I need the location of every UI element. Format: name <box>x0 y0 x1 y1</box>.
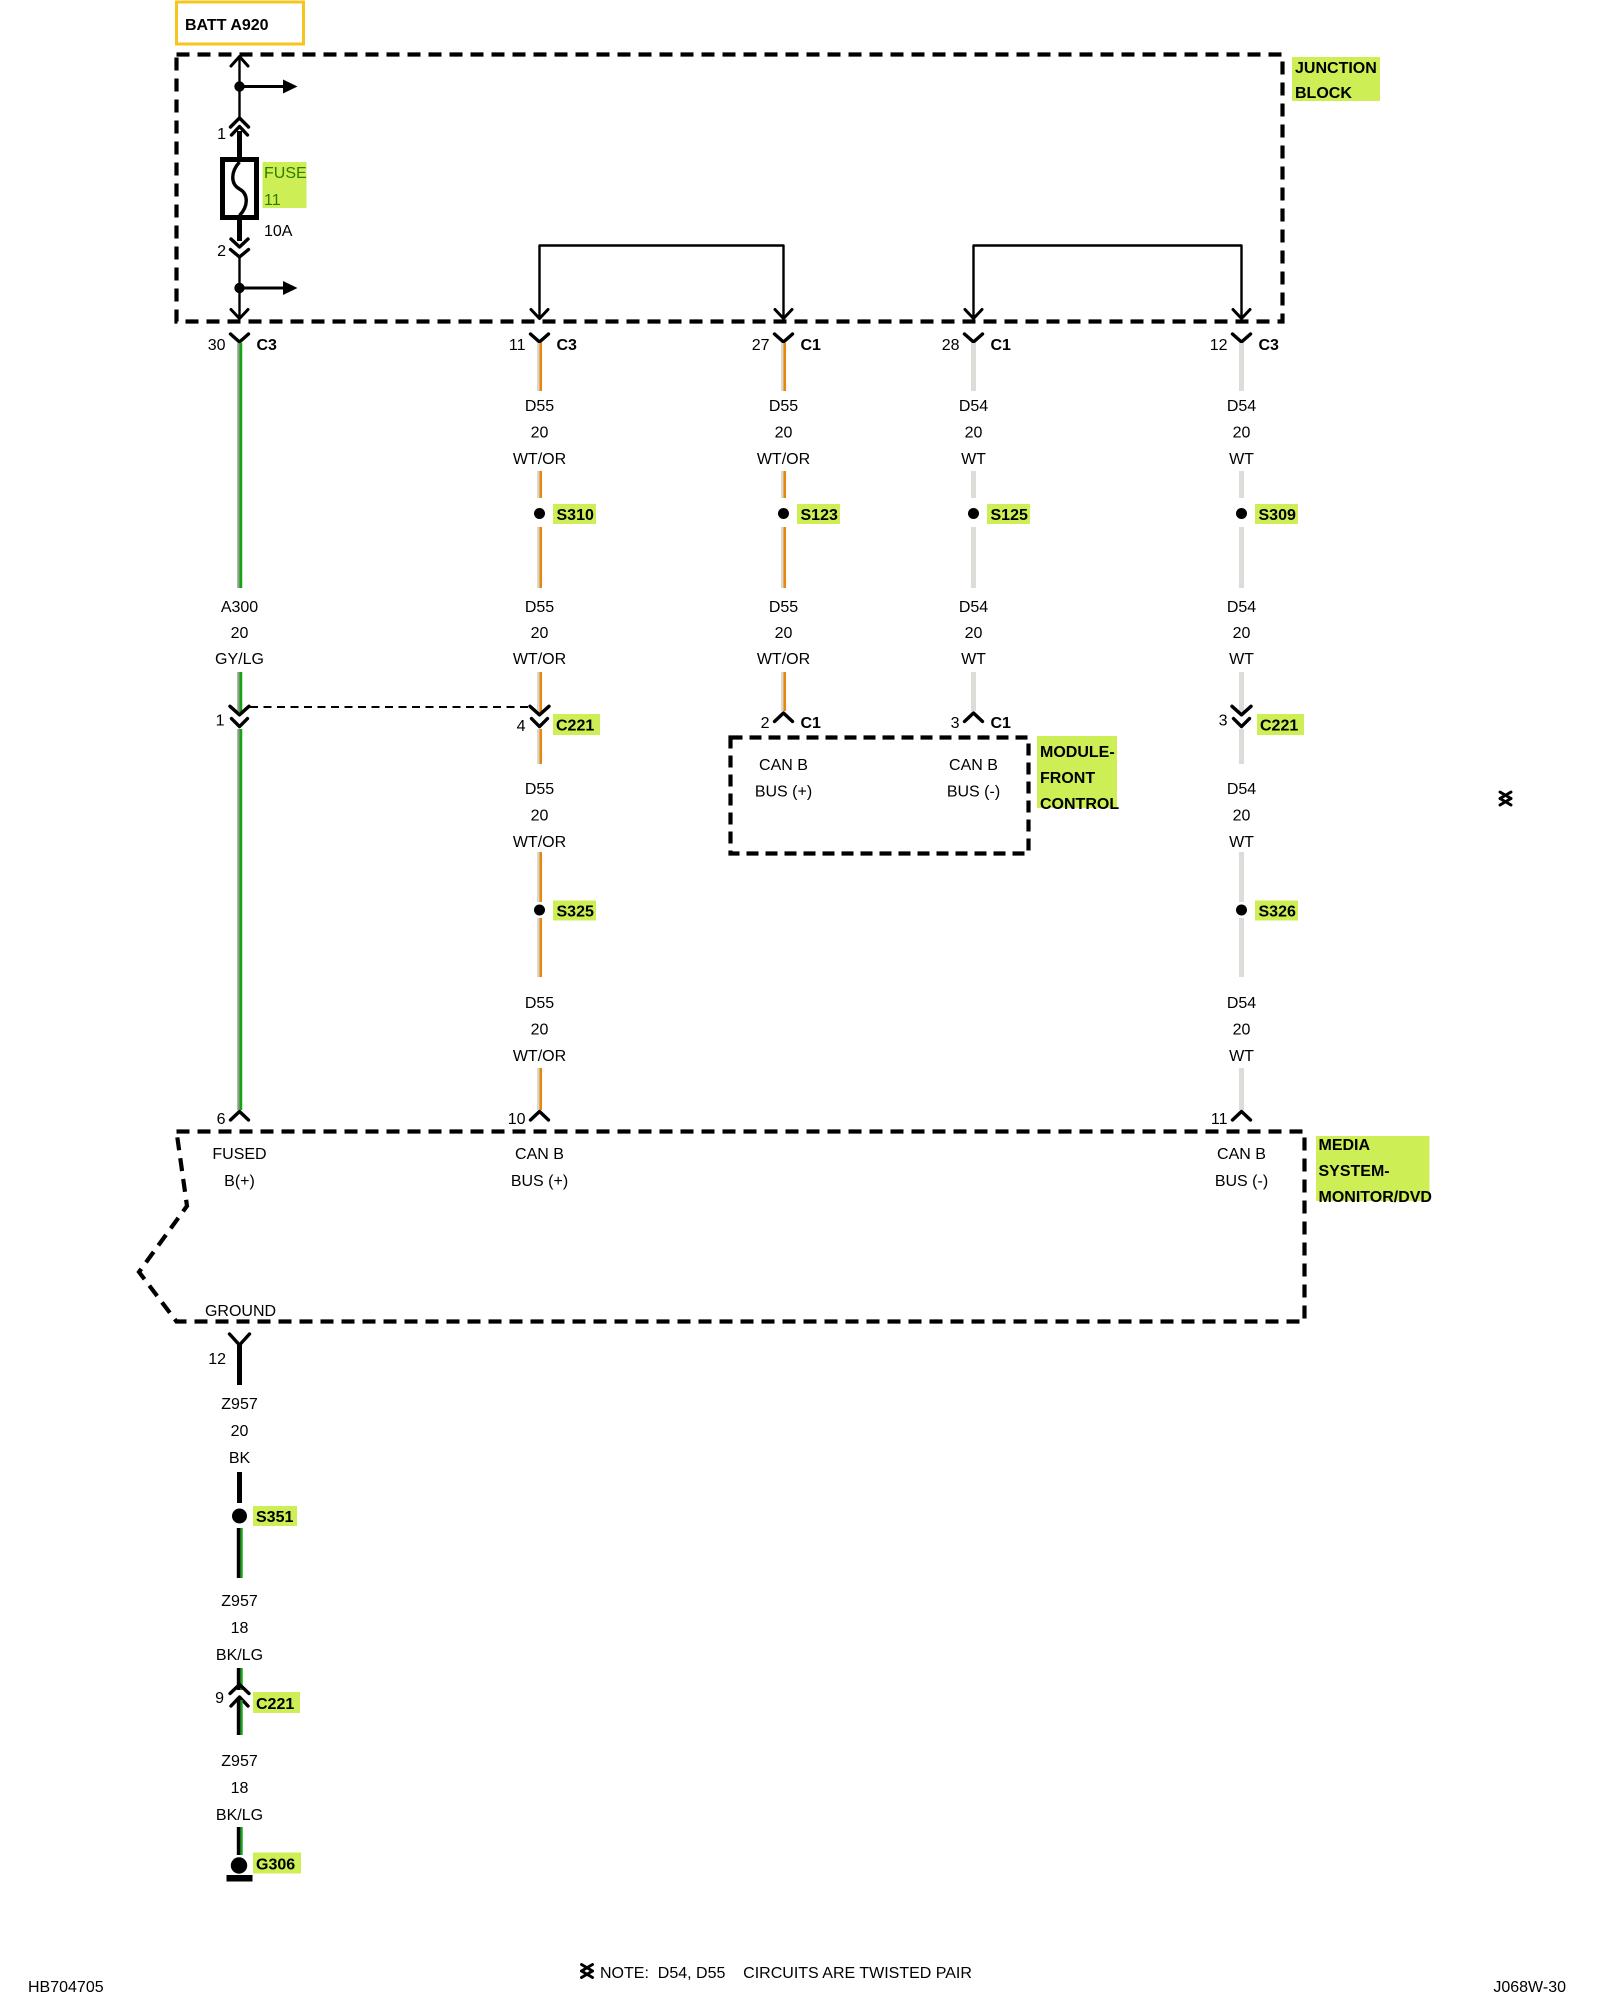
wire (col3 seg2) <box>781 471 783 498</box>
connector C1 pin 2 module front control <box>775 713 793 722</box>
connector C1 pin 28 (junction block) <box>965 334 983 342</box>
svg-text:C3: C3 <box>557 337 578 354</box>
svg-text:Z957: Z957 <box>221 1593 258 1610</box>
svg-text:WT/OR: WT/OR <box>513 1048 566 1065</box>
svg-text:BUS (-): BUS (-) <box>947 784 1000 801</box>
svg-text:D54: D54 <box>1227 599 1256 616</box>
svg-text:D55: D55 <box>525 398 554 415</box>
svg-text:20: 20 <box>231 625 249 642</box>
svg-text:BK/LG: BK/LG <box>216 1807 263 1824</box>
svg-text:WT/OR: WT/OR <box>757 451 810 468</box>
svg-text:WT: WT <box>1229 451 1254 468</box>
connector pin 10 media system <box>531 1112 549 1121</box>
splice S326 <box>1236 905 1247 916</box>
wire fuse body to pin 2 <box>237 217 242 241</box>
splice S310 <box>534 508 545 519</box>
svg-text:CAN B: CAN B <box>759 757 808 774</box>
svg-text:2: 2 <box>217 243 226 260</box>
wire A300 to connector 1 <box>237 672 239 712</box>
wire to C3 pin 30 exit <box>238 288 240 316</box>
splice S325 <box>534 905 545 916</box>
svg-text:BUS (+): BUS (+) <box>755 784 812 801</box>
connector pin 1 of fuse <box>231 118 249 127</box>
svg-text:A300: A300 <box>221 599 258 616</box>
branch arrow lower <box>240 287 284 290</box>
svg-text:18: 18 <box>231 1780 249 1797</box>
wire A300 20 GY/LG upper <box>237 343 239 588</box>
svg-text:S310: S310 <box>557 507 594 524</box>
svg-text:SYSTEM-: SYSTEM- <box>1319 1163 1390 1180</box>
svg-text:20: 20 <box>231 1423 249 1440</box>
svg-text:10A: 10A <box>264 223 293 240</box>
connector pin 12 media system (ground) <box>230 1334 250 1345</box>
svg-text:G306: G306 <box>256 1857 295 1874</box>
svg-text:S351: S351 <box>256 1509 293 1526</box>
svg-text:JUNCTION: JUNCTION <box>1295 60 1377 77</box>
wire (col3 seg3) <box>781 527 783 588</box>
svg-text:BUS (-): BUS (-) <box>1215 1173 1268 1190</box>
wire battery feed to fuse <box>238 57 240 87</box>
svg-text:S326: S326 <box>1259 904 1296 921</box>
svg-text:4: 4 <box>517 718 526 735</box>
svg-text:BLOCK: BLOCK <box>1295 85 1352 102</box>
svg-text:1: 1 <box>216 713 225 730</box>
module-front control label <box>1037 736 1117 808</box>
wire (col5 seg2) <box>1239 471 1244 498</box>
svg-text:NOTE: D54, D55 CIRCUITS AR: NOTE: D54, D55 CIRCUITS ARE TWISTED PAIR <box>600 1965 972 1982</box>
svg-text:WT: WT <box>961 651 986 668</box>
svg-text:20: 20 <box>531 625 549 642</box>
connector C3 pin 11 (junction block) <box>531 334 549 342</box>
junction block outline <box>177 55 1283 322</box>
svg-text:C1: C1 <box>801 337 822 354</box>
wire (col4 seg2) <box>971 471 976 498</box>
svg-text:27: 27 <box>752 337 770 354</box>
splice S309 <box>1236 508 1247 519</box>
connector C221 pin 3 <box>1232 706 1251 715</box>
connector C221 pin 4 <box>530 706 549 715</box>
wire to C221 pin 9 <box>237 1668 241 1690</box>
svg-text:WT: WT <box>1229 651 1254 668</box>
svg-text:FRONT: FRONT <box>1040 770 1095 787</box>
svg-text:GROUND: GROUND <box>205 1303 276 1320</box>
connector C1 pin 3 module front control <box>965 713 983 722</box>
svg-text:12: 12 <box>208 1351 226 1368</box>
svg-text:WT/OR: WT/OR <box>513 651 566 668</box>
svg-text:3: 3 <box>1219 713 1228 730</box>
svg-text:FUSED: FUSED <box>212 1146 266 1163</box>
svg-text:CONTROL: CONTROL <box>1040 796 1119 813</box>
svg-text:11: 11 <box>509 337 526 354</box>
svg-text:D54: D54 <box>1227 398 1256 415</box>
splice S125 <box>968 508 979 519</box>
svg-text:WT/OR: WT/OR <box>513 451 566 468</box>
svg-text:20: 20 <box>531 1022 549 1039</box>
wire (col2 seg2) <box>537 471 539 498</box>
svg-text:WT: WT <box>961 451 986 468</box>
svg-text:Z957: Z957 <box>221 1753 258 1770</box>
svg-text:BK/LG: BK/LG <box>216 1647 263 1664</box>
wire (col3 seg4) <box>781 672 783 711</box>
svg-text:C1: C1 <box>991 337 1012 354</box>
wire (col5 seg5) <box>1239 729 1244 764</box>
wire (col2 seg5) <box>537 729 539 764</box>
svg-text:30: 30 <box>208 337 226 354</box>
svg-text:20: 20 <box>1233 1022 1251 1039</box>
wire (col2 seg7) <box>537 918 539 977</box>
connector C3 pin 30 (junction block) <box>231 334 249 342</box>
svg-text:BATT A920: BATT A920 <box>185 17 269 34</box>
connector pin 2 of fuse <box>231 239 248 247</box>
svg-text:FUSE: FUSE <box>264 165 307 182</box>
svg-text:GY/LG: GY/LG <box>215 651 264 668</box>
svg-text:B(+): B(+) <box>224 1173 255 1190</box>
svg-text:D54: D54 <box>959 599 988 616</box>
junction dot upper <box>234 81 244 91</box>
svg-text:CAN B: CAN B <box>1217 1146 1266 1163</box>
svg-text:BUS (+): BUS (+) <box>511 1173 568 1190</box>
svg-text:C1: C1 <box>801 715 822 732</box>
svg-text:20: 20 <box>1233 808 1251 825</box>
module-front control outline <box>731 738 1029 854</box>
wire (col2 seg8) <box>537 1068 539 1110</box>
svg-text:MEDIA: MEDIA <box>1319 1137 1371 1154</box>
connector C3 pin 12 (junction block) <box>1233 334 1251 342</box>
svg-text:C3: C3 <box>1259 337 1280 354</box>
media system label <box>1316 1136 1430 1201</box>
branch arrow upper <box>240 85 284 88</box>
svg-text:6: 6 <box>217 1111 226 1128</box>
svg-text:10: 10 <box>508 1111 526 1128</box>
svg-text:20: 20 <box>965 625 983 642</box>
svg-text:S123: S123 <box>801 507 838 524</box>
svg-text:BK: BK <box>229 1450 251 1467</box>
connector C221 pin 9 <box>230 1685 249 1694</box>
svg-text:C3: C3 <box>257 337 278 354</box>
wire (col4 seg3) <box>971 527 976 588</box>
svg-text:D55: D55 <box>525 599 554 616</box>
svg-text:D55: D55 <box>769 599 798 616</box>
svg-text:C221: C221 <box>1260 718 1298 735</box>
connector pin 11 media system <box>1233 1112 1251 1121</box>
wire (col2 seg3) <box>537 527 539 588</box>
junction block bus wire right bracket <box>974 246 1242 317</box>
dashed tie line to C221 <box>250 706 530 708</box>
svg-text:MODULE-: MODULE- <box>1040 744 1115 761</box>
wire (col5 seg8) <box>1239 1068 1244 1110</box>
svg-text:WT: WT <box>1229 834 1254 851</box>
svg-text:WT/OR: WT/OR <box>757 651 810 668</box>
svg-text:D54: D54 <box>1227 995 1256 1012</box>
splice S351 <box>232 1509 247 1524</box>
svg-text:WT/OR: WT/OR <box>513 834 566 851</box>
svg-text:D54: D54 <box>1227 781 1256 798</box>
svg-text:20: 20 <box>965 425 983 442</box>
svg-text:C221: C221 <box>256 1696 294 1713</box>
wire D54 20 WT (col4 seg1) <box>971 343 976 391</box>
wire D55 20 WT/OR (col3 seg1) <box>781 343 783 391</box>
note twisted pair <box>582 1965 593 1972</box>
svg-text:D55: D55 <box>769 398 798 415</box>
svg-text:WT: WT <box>1229 1048 1254 1065</box>
fuse F11 body <box>223 160 257 218</box>
svg-text:2: 2 <box>761 715 770 732</box>
svg-text:3: 3 <box>951 715 960 732</box>
svg-text:HB704705: HB704705 <box>28 1979 104 1996</box>
wire to ground G306 <box>237 1827 241 1855</box>
svg-text:20: 20 <box>775 425 793 442</box>
wire D55 20 WT/OR (col2 seg1) <box>537 343 539 391</box>
wire (col5 seg3) <box>1239 527 1244 588</box>
svg-text:20: 20 <box>531 808 549 825</box>
wire A300 20 GY/LG lower <box>237 729 239 1110</box>
svg-text:Z957: Z957 <box>221 1396 258 1413</box>
wire (col2 seg6) <box>537 852 539 902</box>
wire (col5 seg6) <box>1239 852 1244 902</box>
svg-text:28: 28 <box>942 337 960 354</box>
junction block label <box>1292 57 1380 101</box>
svg-text:D55: D55 <box>525 995 554 1012</box>
junction block bus wire left bracket <box>540 246 784 317</box>
svg-text:S125: S125 <box>991 507 1028 524</box>
wire D54 20 WT (col5 seg1) <box>1239 343 1244 391</box>
connector C1 pin 27 (junction block) <box>775 334 793 342</box>
svg-text:20: 20 <box>531 425 549 442</box>
node BATT A920 feed box <box>177 2 304 44</box>
wire to fuse pin 1 <box>238 87 240 118</box>
junction dot lower <box>234 283 244 293</box>
twisted pair note marker (right) <box>1500 792 1511 799</box>
svg-text:J068W-30: J068W-30 <box>1493 1979 1566 1996</box>
fuse label FUSE 11 <box>263 162 307 208</box>
svg-text:12: 12 <box>1210 337 1228 354</box>
arrow to BATT A920 <box>231 57 248 67</box>
svg-text:9: 9 <box>215 1690 224 1707</box>
wire (col2 seg4) <box>537 672 539 712</box>
svg-text:D55: D55 <box>525 781 554 798</box>
svg-text:D54: D54 <box>959 398 988 415</box>
svg-text:20: 20 <box>775 625 793 642</box>
svg-text:S325: S325 <box>557 904 594 921</box>
inline connector pin 1 <box>230 706 249 715</box>
wire pin2 down <box>238 257 240 288</box>
svg-text:11: 11 <box>1211 1111 1228 1128</box>
wire Z957 20 BK <box>237 1472 242 1503</box>
svg-text:C1: C1 <box>991 715 1012 732</box>
svg-text:11: 11 <box>264 192 281 209</box>
svg-text:1: 1 <box>217 126 226 143</box>
svg-text:CAN B: CAN B <box>515 1146 564 1163</box>
svg-text:18: 18 <box>231 1620 249 1637</box>
wire Z957 18 BK/LG <box>237 1528 241 1578</box>
svg-text:MONITOR/DVD: MONITOR/DVD <box>1319 1189 1432 1206</box>
svg-text:S309: S309 <box>1259 507 1296 524</box>
svg-text:20: 20 <box>1233 425 1251 442</box>
ground G306 <box>231 1857 247 1873</box>
connector pin 6 media system <box>231 1112 249 1121</box>
svg-text:CAN B: CAN B <box>949 757 998 774</box>
wire (col4 seg4) <box>971 672 976 711</box>
media system-monitor/dvd outline <box>139 1132 1305 1322</box>
wire (col5 seg7) <box>1239 918 1244 977</box>
splice S123 <box>778 508 789 519</box>
wire (col5 seg4) <box>1239 672 1244 712</box>
svg-text:20: 20 <box>1233 625 1251 642</box>
wire pin1 to fuse body <box>237 131 242 161</box>
svg-text:C221: C221 <box>556 718 594 735</box>
